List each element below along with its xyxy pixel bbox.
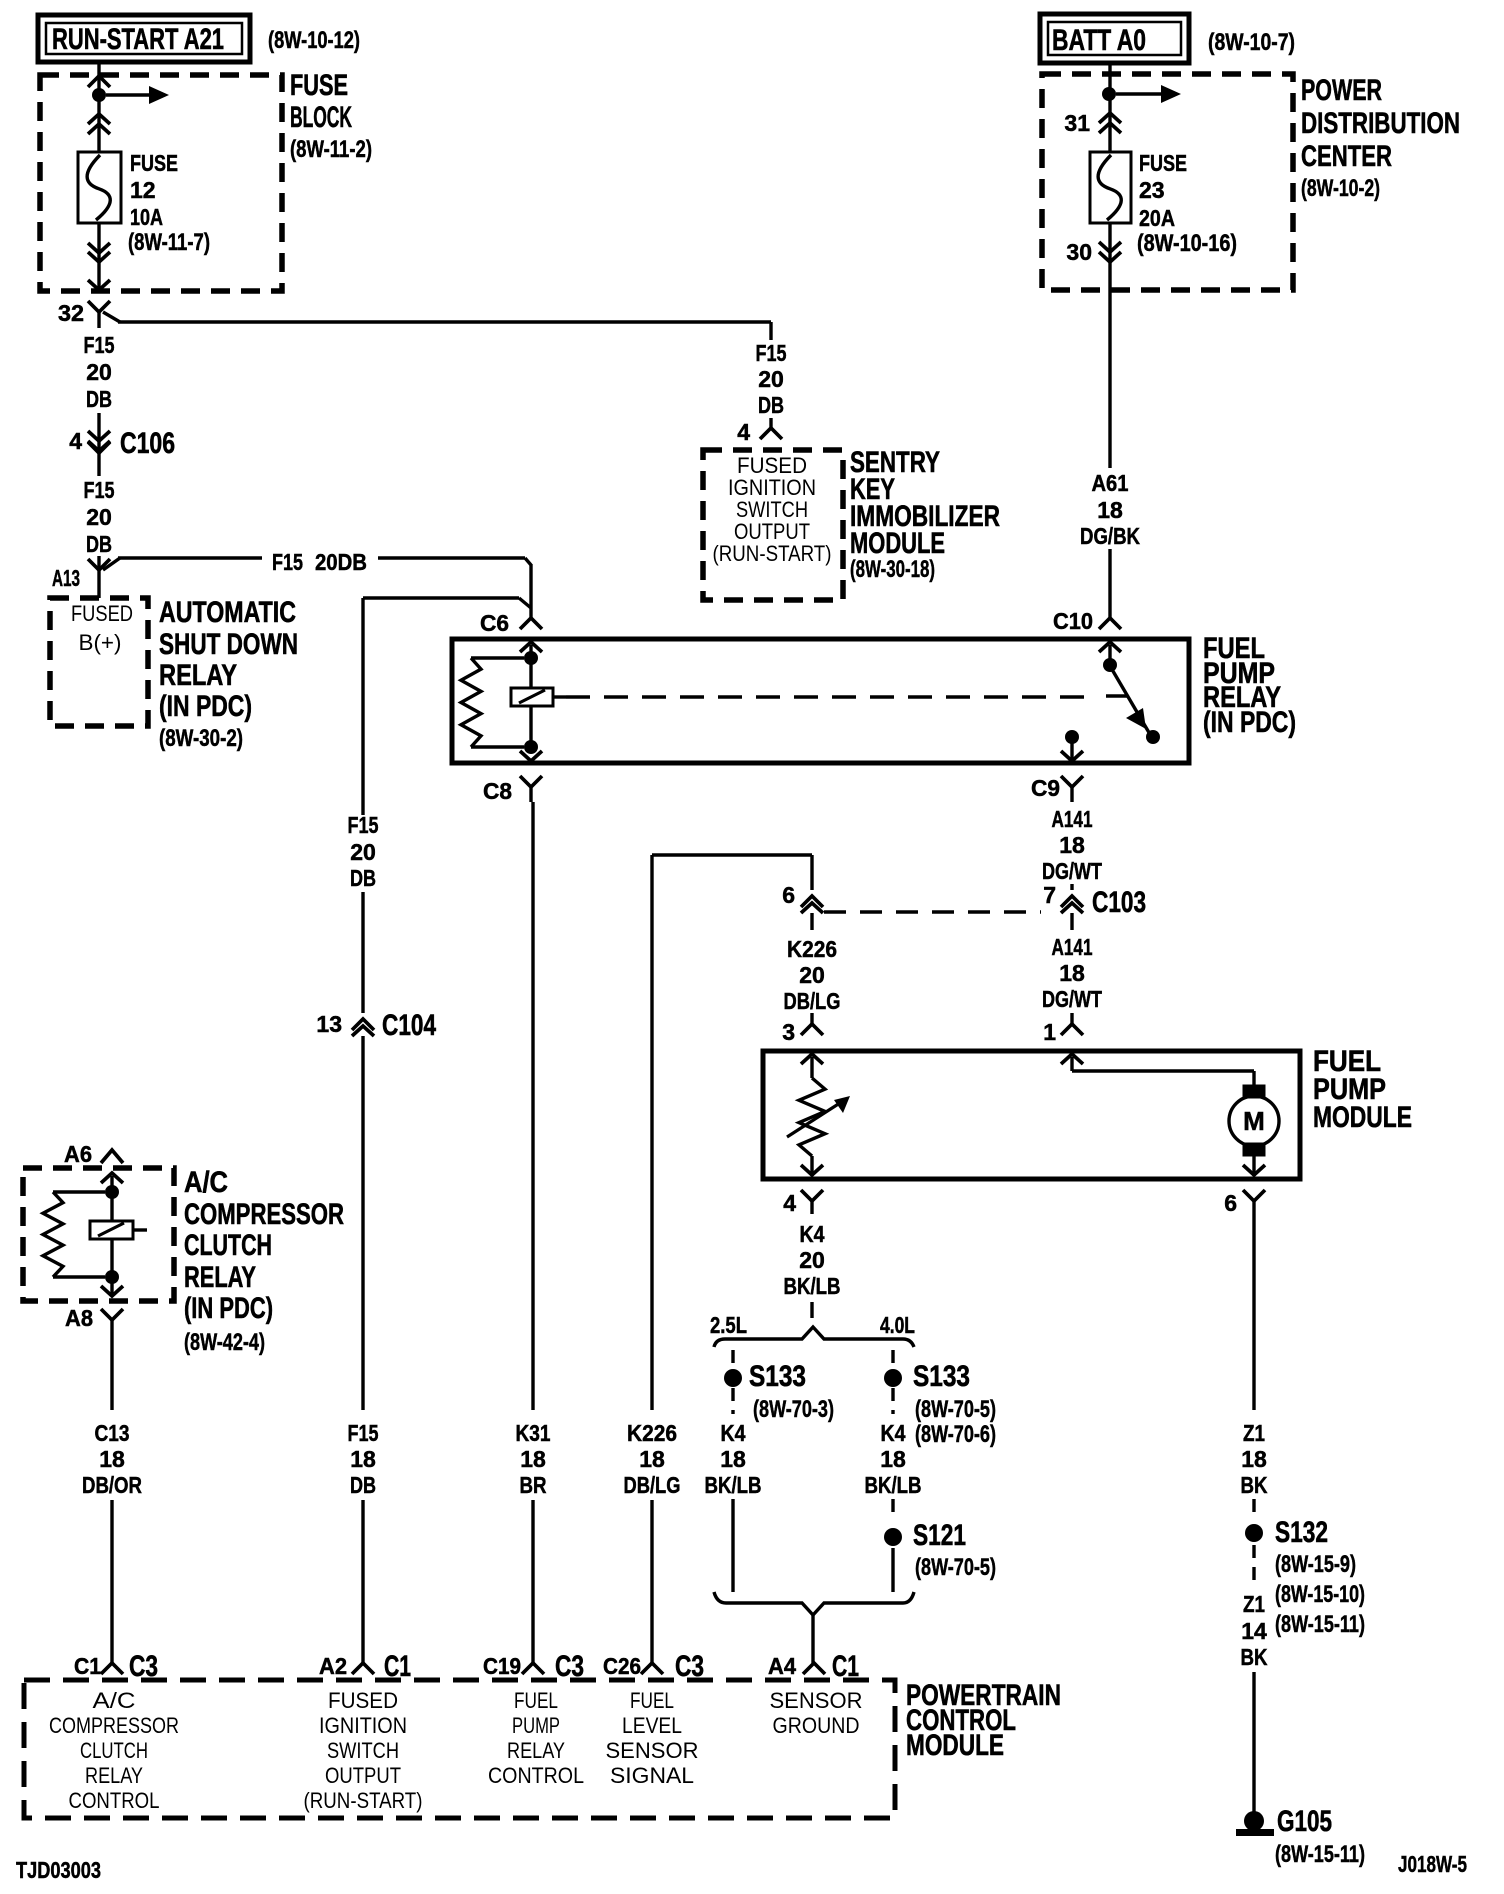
relay switch fixed contact dot xyxy=(1146,730,1160,744)
wire label K4 20 BK/LB xyxy=(784,1221,841,1299)
svg-text:18: 18 xyxy=(1241,1446,1267,1472)
wire K31 relay C8 to PCM C19 xyxy=(531,802,534,1410)
svg-text:S121: S121 xyxy=(913,1519,966,1552)
relay C10 entry arrow xyxy=(1099,642,1121,665)
svg-text:K4: K4 xyxy=(800,1221,825,1247)
svg-text:Z1: Z1 xyxy=(1243,1420,1265,1446)
svg-text:MODULE: MODULE xyxy=(906,1729,1004,1762)
svg-text:AUTOMATIC: AUTOMATIC xyxy=(159,596,296,629)
svg-text:F15: F15 xyxy=(348,812,379,838)
PCM pin A2 connector xyxy=(319,1650,411,1683)
pin 4 exit xyxy=(801,1156,823,1176)
connector A8 fork xyxy=(65,1305,123,1332)
svg-text:BK/LB: BK/LB xyxy=(784,1273,841,1299)
node RUN-START A21 feed box xyxy=(38,15,250,62)
wire to PCM A2 xyxy=(361,1500,364,1663)
svg-text:12: 12 xyxy=(130,177,156,203)
splice node A13 xyxy=(52,556,120,598)
svg-text:CLUTCH: CLUTCH xyxy=(184,1229,272,1262)
fuse F23 20A xyxy=(1090,150,1237,257)
svg-text:LEVEL: LEVEL xyxy=(622,1713,682,1738)
svg-text:FUSE: FUSE xyxy=(290,69,348,102)
svg-text:BLOCK: BLOCK xyxy=(290,101,352,134)
svg-text:CONTROL: CONTROL xyxy=(488,1763,584,1788)
connector C9 fork xyxy=(1031,775,1083,802)
svg-text:K4: K4 xyxy=(881,1420,906,1446)
svg-text:18: 18 xyxy=(720,1446,746,1472)
PCM pin C26 connector xyxy=(603,1650,704,1683)
a/c relay top junction dot xyxy=(105,1185,119,1199)
svg-text:18: 18 xyxy=(1059,960,1085,986)
PCM label fuel pump relay control xyxy=(488,1688,584,1788)
wire stub to S133 left xyxy=(731,1350,734,1369)
wire label A61 18 DG/BK xyxy=(1080,470,1140,549)
sheet number J018W-5 xyxy=(1398,1851,1467,1877)
a/c relay exit chevron A8 xyxy=(101,1286,123,1296)
splice S133 (2.5L) xyxy=(724,1360,834,1423)
svg-text:(8W-15-9): (8W-15-9) xyxy=(1275,1551,1356,1578)
relay switch arm xyxy=(1110,666,1151,736)
svg-text:Z1: Z1 xyxy=(1243,1591,1265,1617)
svg-text:COMPRESSOR: COMPRESSOR xyxy=(49,1713,179,1738)
fuel level sensor variable resistor xyxy=(787,1078,850,1156)
wire label Z1 18 BK xyxy=(1241,1420,1268,1498)
svg-text:10A: 10A xyxy=(130,204,163,230)
svg-text:(IN PDC): (IN PDC) xyxy=(159,690,252,723)
a/c relay entry arrow xyxy=(101,1173,123,1294)
wire label F15 18 DB xyxy=(348,1420,379,1498)
svg-text:CONTROL: CONTROL xyxy=(69,1788,160,1813)
svg-text:C1: C1 xyxy=(74,1653,101,1679)
svg-text:20: 20 xyxy=(799,962,825,988)
svg-text:FUSED: FUSED xyxy=(71,601,133,626)
fuel pump module pin 3 connector xyxy=(782,1013,823,1045)
svg-text:(8W-70-6): (8W-70-6) xyxy=(915,1421,996,1448)
connector C8 fork xyxy=(483,776,542,804)
svg-text:20: 20 xyxy=(86,359,112,385)
connector pin 32 fork xyxy=(88,301,110,328)
relay switch hinge dot xyxy=(1103,658,1117,672)
direction chevrons above fuse 12 xyxy=(88,114,110,134)
pin 30 chevrons xyxy=(1066,223,1121,290)
svg-text:SWITCH: SWITCH xyxy=(327,1738,399,1763)
svg-text:(RUN-START): (RUN-START) xyxy=(304,1788,423,1813)
fuel pump module pin 1 connector xyxy=(1043,1013,1083,1045)
svg-text:14: 14 xyxy=(1241,1618,1267,1644)
svg-text:18: 18 xyxy=(350,1446,376,1472)
svg-text:CLUTCH: CLUTCH xyxy=(80,1738,148,1763)
svg-text:COMPRESSOR: COMPRESSOR xyxy=(184,1198,344,1231)
wire F15 18 DB lower segment xyxy=(361,1042,364,1410)
a/c relay bottom junction dot xyxy=(105,1270,119,1284)
svg-text:(8W-42-4): (8W-42-4) xyxy=(184,1329,265,1356)
svg-text:20A: 20A xyxy=(1139,205,1175,231)
svg-text:1: 1 xyxy=(1043,1019,1056,1045)
relay output junction dot xyxy=(1065,730,1079,761)
wire label F15 below C106 xyxy=(84,464,115,557)
svg-text:A/C: A/C xyxy=(93,1688,136,1713)
svg-text:OUTPUT: OUTPUT xyxy=(325,1763,401,1788)
svg-text:DB: DB xyxy=(350,865,376,891)
svg-text:BK: BK xyxy=(1241,1644,1268,1670)
svg-text:RELAY: RELAY xyxy=(159,659,237,692)
svg-text:C10: C10 xyxy=(1053,608,1093,634)
svg-text:7: 7 xyxy=(1043,882,1056,908)
svg-text:FUEL: FUEL xyxy=(514,1688,558,1713)
svg-text:32: 32 xyxy=(58,300,84,326)
drawing number TJD03003 xyxy=(16,1857,101,1883)
relay coil top junction dot xyxy=(524,651,538,665)
svg-text:BK/LB: BK/LB xyxy=(865,1472,922,1498)
svg-text:20: 20 xyxy=(799,1247,825,1273)
connector SKIM pin 4 xyxy=(737,418,782,445)
page reference (8W-10-7) xyxy=(1208,29,1295,56)
connector C103 pin 7 xyxy=(1043,882,1146,930)
svg-text:F15: F15 xyxy=(348,1420,379,1446)
svg-text:C3: C3 xyxy=(555,1650,584,1683)
wire S121 to ground bracket xyxy=(891,1548,894,1592)
svg-text:23: 23 xyxy=(1139,177,1165,203)
svg-text:RELAY: RELAY xyxy=(507,1738,565,1763)
svg-text:F15: F15 xyxy=(84,477,115,503)
branch arrow to other circuits xyxy=(106,86,169,104)
svg-text:(8W-30-2): (8W-30-2) xyxy=(159,725,243,752)
svg-text:DG/WT: DG/WT xyxy=(1042,986,1102,1012)
svg-text:18: 18 xyxy=(880,1446,906,1472)
wire F15 20DB branch to fuel pump relay C6 xyxy=(118,549,542,629)
svg-text:S133: S133 xyxy=(913,1360,970,1393)
svg-text:SHUT DOWN: SHUT DOWN xyxy=(159,628,298,661)
wire K226 to PCM C26 xyxy=(650,1500,653,1663)
svg-text:A13: A13 xyxy=(52,565,80,591)
relay coil bottom junction dot xyxy=(524,740,538,754)
PCM label a/c compressor clutch relay control xyxy=(49,1688,179,1813)
wire label A141 18 DG/WT upper xyxy=(1042,806,1102,884)
svg-text:DG/WT: DG/WT xyxy=(1042,858,1102,884)
svg-text:CENTER: CENTER xyxy=(1301,140,1392,173)
svg-text:A141: A141 xyxy=(1052,806,1093,832)
svg-text:C106: C106 xyxy=(120,427,175,460)
wire stub below S133 right xyxy=(891,1388,894,1414)
wire Z1 to ground G105 xyxy=(1252,1672,1255,1815)
wire label K4 18 BK/LB left xyxy=(705,1420,762,1498)
svg-text:G105: G105 xyxy=(1277,1805,1332,1838)
svg-text:S133: S133 xyxy=(749,1360,806,1393)
svg-text:(8W-10-12): (8W-10-12) xyxy=(268,27,360,54)
power distribution center enclosure (dashed) xyxy=(1042,74,1460,290)
automatic shut down relay title xyxy=(159,596,298,752)
svg-text:FUSE: FUSE xyxy=(1139,150,1187,176)
powertrain control module box (dashed) xyxy=(24,1680,895,1818)
wire F15 A13 to C104 to PCM A2 xyxy=(363,598,531,815)
connector C6 entry arrow xyxy=(480,610,542,747)
connector fork at fuse block top edge xyxy=(88,76,110,87)
junction dot A21 node xyxy=(92,88,106,102)
wire Z1 pin6 to S132 xyxy=(1252,1214,1255,1410)
svg-text:C3: C3 xyxy=(129,1650,158,1683)
wire label K31 18 BR xyxy=(516,1420,551,1498)
svg-text:RUN-START A21: RUN-START A21 xyxy=(52,23,224,56)
splice S132 xyxy=(1245,1516,1365,1638)
connector C103 dashed tie line xyxy=(824,910,1041,913)
powertrain control module title xyxy=(906,1679,1061,1762)
svg-text:SENSOR: SENSOR xyxy=(606,1738,699,1763)
svg-text:C19: C19 xyxy=(483,1653,521,1679)
svg-text:3: 3 xyxy=(782,1019,795,1045)
wire C13 A8 to PCM C1 xyxy=(110,1332,113,1410)
automatic shut down relay box (dashed) xyxy=(50,598,148,726)
a/c relay shunt resistor xyxy=(43,1192,105,1277)
svg-text:(8W-10-16): (8W-10-16) xyxy=(1137,230,1237,257)
pin 32 label xyxy=(58,300,84,326)
svg-text:18: 18 xyxy=(99,1446,125,1472)
svg-text:PUMP: PUMP xyxy=(512,1713,560,1738)
svg-text:RELAY: RELAY xyxy=(85,1763,143,1788)
wire label K226 20 DB/LG xyxy=(784,936,841,1014)
svg-text:FUSE: FUSE xyxy=(130,150,178,176)
pin 31 chevrons xyxy=(1064,110,1121,136)
connector C106 pin 4 xyxy=(69,413,175,464)
wire label K4 18 BK/LB right xyxy=(865,1420,922,1498)
svg-text:4: 4 xyxy=(783,1190,796,1216)
svg-text:20: 20 xyxy=(350,839,376,865)
svg-text:C104: C104 xyxy=(382,1009,436,1042)
fuse block enclosure (dashed) xyxy=(40,69,372,291)
PCM pin C19 connector xyxy=(483,1650,584,1683)
wire segment to C104 xyxy=(361,892,364,1013)
wire A141 upper segment xyxy=(1070,884,1073,890)
relay mechanical link (dashed) xyxy=(566,696,1127,697)
svg-text:4.0L: 4.0L xyxy=(880,1312,915,1338)
wire stub below S133 left xyxy=(731,1388,734,1414)
wire A0 into PDC xyxy=(1108,63,1111,152)
branch arrow to other circuits PDC xyxy=(1116,85,1181,103)
svg-text:(8W-11-7): (8W-11-7) xyxy=(128,229,210,256)
svg-text:K31: K31 xyxy=(516,1420,551,1446)
sentry key immobilizer module box (dashed) xyxy=(703,450,843,600)
relay shunt resistor xyxy=(461,658,524,747)
wire C13 to PCM C1 xyxy=(110,1500,113,1663)
svg-text:K226: K226 xyxy=(787,936,837,962)
svg-text:20: 20 xyxy=(758,366,784,392)
PCM label fused ignition switch output xyxy=(304,1688,423,1813)
svg-text:(8W-15-11): (8W-15-11) xyxy=(1275,1611,1365,1638)
svg-text:MODULE: MODULE xyxy=(1313,1101,1412,1134)
relay C9 exit chevron xyxy=(1061,751,1083,761)
svg-text:C1: C1 xyxy=(384,1650,411,1683)
svg-text:C1: C1 xyxy=(832,1650,859,1683)
svg-text:BATT A0: BATT A0 xyxy=(1052,24,1146,57)
PCM label sensor ground xyxy=(770,1688,863,1738)
a/c relay title xyxy=(184,1166,344,1356)
svg-text:DISTRIBUTION: DISTRIBUTION xyxy=(1301,107,1460,140)
fuel pump module box xyxy=(763,1051,1300,1179)
ground G105 xyxy=(1236,1805,1365,1868)
wire label K226 18 DB/LG xyxy=(624,1420,681,1498)
svg-text:SIGNAL: SIGNAL xyxy=(610,1763,694,1788)
svg-text:S132: S132 xyxy=(1275,1516,1328,1549)
svg-text:K226: K226 xyxy=(627,1420,677,1446)
svg-text:(8W-11-2): (8W-11-2) xyxy=(290,136,372,163)
svg-text:BR: BR xyxy=(520,1472,547,1498)
connector pin 6 fork xyxy=(1224,1190,1265,1216)
svg-text:C8: C8 xyxy=(483,778,512,804)
svg-text:A2: A2 xyxy=(319,1653,347,1679)
wire A61 PDC to fuel pump relay C10 xyxy=(1108,290,1111,468)
connector pin 4 fork xyxy=(783,1190,823,1216)
a/c compressor clutch relay box (dashed) xyxy=(23,1168,174,1301)
splice S121 xyxy=(884,1519,996,1581)
svg-text:(8W-70-3): (8W-70-3) xyxy=(753,1396,834,1423)
wire A21 into fuse block xyxy=(97,64,100,152)
svg-text:2.5L: 2.5L xyxy=(710,1312,747,1338)
relay C8 exit chevron xyxy=(520,751,542,761)
svg-text:31: 31 xyxy=(1064,110,1090,136)
wire fuse 12 to pin 32 xyxy=(97,223,100,290)
svg-text:A/C: A/C xyxy=(184,1166,228,1199)
ground merge bracket xyxy=(714,1592,914,1663)
svg-text:18: 18 xyxy=(520,1446,546,1472)
PCM pin C1 connector xyxy=(74,1650,158,1683)
svg-text:(RUN-START): (RUN-START) xyxy=(713,541,832,566)
svg-text:DB: DB xyxy=(86,386,112,412)
fuel pump relay title xyxy=(1203,632,1296,739)
PCM label fuel level sensor signal xyxy=(606,1688,699,1788)
svg-text:A8: A8 xyxy=(65,1305,93,1331)
svg-text:(8W-15-10): (8W-15-10) xyxy=(1275,1581,1365,1608)
svg-text:(8W-15-11): (8W-15-11) xyxy=(1275,1841,1365,1868)
svg-text:(IN PDC): (IN PDC) xyxy=(184,1292,273,1325)
svg-text:4: 4 xyxy=(69,428,82,454)
wire label Z1 14 BK xyxy=(1241,1591,1268,1670)
connector C103 pin 6 xyxy=(782,882,823,930)
svg-text:6: 6 xyxy=(1224,1190,1237,1216)
svg-text:A61: A61 xyxy=(1092,470,1129,496)
svg-text:B(+): B(+) xyxy=(79,630,122,655)
connector C104 pin 13 xyxy=(316,1009,436,1042)
wire label C13 18 DB/OR xyxy=(82,1420,142,1498)
svg-text:SENSOR: SENSOR xyxy=(770,1688,863,1713)
svg-text:F15: F15 xyxy=(84,332,115,358)
svg-text:DB: DB xyxy=(758,392,784,418)
svg-text:DB/OR: DB/OR xyxy=(82,1472,142,1498)
svg-text:F15: F15 xyxy=(756,340,787,366)
svg-text:BK/LB: BK/LB xyxy=(705,1472,762,1498)
svg-text:4: 4 xyxy=(737,419,750,445)
svg-text:(8W-70-5): (8W-70-5) xyxy=(915,1554,996,1581)
svg-text:6: 6 xyxy=(782,882,795,908)
svg-text:DB: DB xyxy=(86,531,112,557)
svg-text:A4: A4 xyxy=(768,1653,796,1679)
svg-text:GROUND: GROUND xyxy=(773,1713,860,1738)
svg-text:K4: K4 xyxy=(721,1420,746,1446)
svg-text:(8W-10-7): (8W-10-7) xyxy=(1208,29,1295,56)
relay coil K1 xyxy=(511,688,566,706)
svg-text:BK: BK xyxy=(1241,1472,1268,1498)
wire label A141 18 DG/WT lower xyxy=(1042,934,1102,1012)
wire F15 20DB pin32 to SKIM pin4 xyxy=(103,312,771,340)
wire K226 PCM C26 to C103-6 xyxy=(652,855,812,1410)
svg-text:J018W-5: J018W-5 xyxy=(1398,1851,1467,1877)
svg-text:A6: A6 xyxy=(64,1141,92,1167)
svg-text:DB/LG: DB/LG xyxy=(624,1472,681,1498)
svg-text:20DB: 20DB xyxy=(315,549,367,575)
wire S133 left to ground bracket xyxy=(731,1499,734,1592)
svg-text:F15: F15 xyxy=(272,549,303,575)
svg-text:DB: DB xyxy=(350,1472,376,1498)
svg-text:M: M xyxy=(1243,1106,1265,1136)
svg-text:18: 18 xyxy=(1059,832,1085,858)
direction chevrons below fuse 12 xyxy=(88,243,110,290)
pin 1 entry arrow and wire to motor xyxy=(1061,1054,1254,1086)
a/c relay coil xyxy=(90,1221,147,1239)
PCM pin A4 connector xyxy=(768,1650,859,1683)
sentry key immobilizer module title xyxy=(850,446,1000,583)
svg-text:30: 30 xyxy=(1066,239,1092,265)
svg-text:IGNITION: IGNITION xyxy=(319,1713,407,1738)
svg-text:FUEL: FUEL xyxy=(630,1688,674,1713)
svg-text:C9: C9 xyxy=(1031,775,1060,801)
splice S133 (4.0L) xyxy=(884,1360,996,1448)
wire label F15 left column xyxy=(84,332,115,412)
svg-text:TJD03003: TJD03003 xyxy=(16,1857,101,1883)
connector C10 fork xyxy=(1053,608,1121,634)
svg-text:C13: C13 xyxy=(95,1420,130,1446)
wire label F15 20 DB at SKIM xyxy=(756,340,787,418)
fuel pump relay box xyxy=(452,639,1189,763)
svg-text:20: 20 xyxy=(86,504,112,530)
svg-text:FUSED: FUSED xyxy=(328,1688,398,1713)
fuel pump module title xyxy=(1313,1045,1412,1134)
svg-text:A141: A141 xyxy=(1052,934,1093,960)
svg-text:C3: C3 xyxy=(675,1650,704,1683)
wire stub below S132 xyxy=(1252,1545,1255,1583)
engine split bracket 2.5L/4.0L xyxy=(710,1312,915,1347)
fuse F12 10A xyxy=(78,150,210,256)
svg-text:18: 18 xyxy=(639,1446,665,1472)
wire stub to S133 right xyxy=(891,1350,894,1369)
connector A6 chevron xyxy=(64,1141,123,1167)
page reference (8W-10-12) xyxy=(268,27,360,54)
svg-text:(8W-10-2): (8W-10-2) xyxy=(1301,175,1380,202)
svg-text:C6: C6 xyxy=(480,610,509,636)
junction dot A0 node xyxy=(1102,87,1116,101)
svg-text:C103: C103 xyxy=(1092,886,1146,919)
svg-text:(8W-70-5): (8W-70-5) xyxy=(915,1396,996,1423)
svg-text:(IN PDC): (IN PDC) xyxy=(1203,706,1296,739)
svg-text:(8W-30-18): (8W-30-18) xyxy=(850,556,935,583)
wire A61 lower segment xyxy=(1108,549,1111,618)
node BATT A0 feed box xyxy=(1040,14,1189,63)
wire stub to S121 xyxy=(891,1499,894,1516)
wire stub to engine bracket xyxy=(810,1302,813,1318)
wire label F15 20 DB middle xyxy=(348,812,379,891)
svg-text:DB/LG: DB/LG xyxy=(784,988,841,1014)
wire K31 to PCM C19 xyxy=(531,1500,534,1663)
svg-text:DG/BK: DG/BK xyxy=(1080,523,1140,549)
svg-text:18: 18 xyxy=(1097,497,1123,523)
svg-text:POWER: POWER xyxy=(1301,74,1382,107)
svg-text:RELAY: RELAY xyxy=(184,1261,256,1294)
pin 3 entry arrow xyxy=(801,1054,823,1078)
wire stub to S132 xyxy=(1252,1499,1255,1514)
svg-text:C26: C26 xyxy=(603,1653,641,1679)
fuel pump motor M1 xyxy=(1229,1085,1279,1176)
pin 6 exit chevron xyxy=(1243,1165,1265,1175)
svg-text:13: 13 xyxy=(316,1011,342,1037)
